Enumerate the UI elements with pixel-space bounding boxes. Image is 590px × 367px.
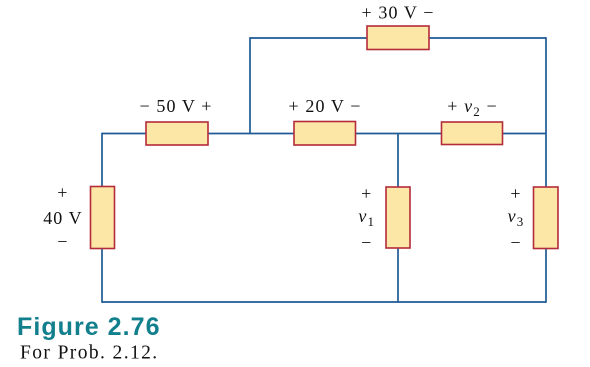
element v3 (right vertical box)	[534, 187, 559, 249]
wire left vertical	[101, 133, 103, 303]
svg-text:− 50 V +: − 50 V +	[140, 96, 213, 116]
wire top-left vertical drop	[249, 37, 251, 133]
element 20 V (center middle box)	[294, 122, 356, 146]
svg-text:+ 20 V −: + 20 V −	[289, 96, 362, 116]
wire bottom horizontal	[102, 301, 546, 303]
element 30 V (top branch box)	[367, 26, 429, 50]
svg-text:v1: v1	[358, 206, 375, 229]
svg-text:−: −	[57, 232, 68, 252]
svg-text:+: +	[361, 184, 372, 204]
svg-text:+ 30 V −: + 30 V −	[362, 3, 435, 23]
svg-text:v3: v3	[508, 206, 525, 229]
wire top horizontal	[250, 37, 546, 39]
element 50 V (left middle box)	[146, 122, 208, 145]
svg-text:+: +	[57, 183, 68, 203]
svg-text:+: +	[510, 184, 521, 204]
element v1 (center vertical box)	[386, 187, 410, 248]
wire middle horizontal	[102, 133, 546, 135]
svg-text:−: −	[361, 233, 372, 253]
wire right vertical	[545, 37, 547, 303]
wire center vertical	[397, 134, 399, 303]
element v2 (right middle box)	[442, 122, 503, 145]
svg-text:For Prob. 2.12.: For Prob. 2.12.	[20, 343, 159, 364]
svg-text:+ v2 −: + v2 −	[447, 96, 497, 119]
svg-text:Figure 2.76: Figure 2.76	[17, 313, 161, 341]
svg-text:−: −	[510, 233, 521, 253]
svg-text:40 V: 40 V	[43, 208, 83, 228]
element 40 V source (left vertical box)	[91, 187, 115, 249]
